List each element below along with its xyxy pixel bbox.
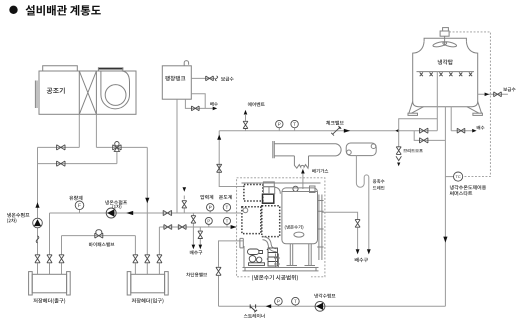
inlet header body [131,274,165,293]
valve on tank makeup [206,76,214,81]
arrow tank drain [213,107,218,111]
label 배수구 (machine drain) [355,258,368,263]
label 냉온수펌프 (2차) [7,213,29,218]
flow arrow down on tower return [443,237,447,243]
AHU fan scroll casing [101,71,130,109]
pump P1 (primary chilled water pump) [106,208,116,218]
machine pipe bend arc [275,187,281,194]
label 배기가스 [312,169,328,173]
wire tower spray riser [436,72,438,131]
pipe break S on makeup [215,76,217,81]
machine pump column [268,248,278,266]
wire AHU supply line to left riser [38,146,80,148]
wire tower makeup line [478,93,508,95]
machine pumps on base [249,255,256,262]
air vent: valve, stem, arrow [245,115,247,131]
cooling tower fan motor [440,31,449,36]
tower legs right [467,102,482,114]
shut-off valve 차단용밸브 [216,267,221,275]
wire AHU right coil pipe down [95,114,97,147]
cooling tower motor cap [443,28,449,31]
AHU fan discharge duct [98,68,123,70]
fan blades [433,41,448,48]
label 유량계 [69,196,82,201]
label 스트레이너 [244,314,265,318]
gauges row2: P T [208,224,210,227]
gauges row1: P T with labels [209,211,211,213]
flow arrow up on left riser [35,202,39,208]
spray header [417,71,475,73]
spray nozzles [420,72,472,76]
exhaust duct branch with broken end [294,156,308,168]
wire 3-way valve bottom port to bypass [116,151,118,163]
machine top small boxes E [263,182,274,187]
chiller scope dashed box [237,178,325,277]
thermostat TC circle [445,176,453,178]
label 보급수 (tank) [221,77,234,81]
AHU label 공조기 [47,87,65,93]
title bullet [9,6,17,14]
machine evaporator section (dotted) C [262,206,280,237]
fan shaft [444,36,446,46]
AHU coil section verticals [79,71,96,114]
label 브리드오프 [403,149,422,153]
wire corner to outlet header pipe2 [49,213,51,274]
valve on AHU supply line [57,145,65,150]
machine left boundary [243,246,245,268]
wire lower link to tower return pipe [414,131,445,141]
wire tank makeup line [191,77,215,79]
drain legs with valves below lower pipe [192,227,194,245]
wire tank overflow [191,94,205,109]
AHU coil X [79,71,96,114]
label 배수 (tank) [210,102,218,106]
thermometer T on condenser line [294,128,296,131]
machine bottom-right pipe [274,254,280,268]
tower legs left [409,102,424,114]
label (냉온수기) [285,225,304,230]
valve on AHU bypass line [57,161,65,166]
AHU fan wheel circle [105,85,126,106]
wire tower drain pipe [451,107,472,131]
label 배수구 (drain legs) [190,250,202,254]
machine base rails [243,268,319,271]
valve on tower makeup [494,92,502,97]
exhaust duct flange [273,141,275,158]
valve on condenser outlet riser [217,164,222,172]
machine main vessel [282,188,318,244]
label 냉온수펌프 (1차) [105,200,127,204]
tower inlet valve on main line [420,128,428,133]
expansion tank vent hook [184,61,188,66]
wire lower chilled pipe y=227 [159,226,236,228]
makeup feed arrow + valve into chilled line [183,187,187,192]
wire condenser water line to tower [219,130,437,132]
AHU top duct mark [43,66,78,71]
wire corner to inlet header pipe3 [158,227,160,274]
wire AHU left coil pipe down [78,114,80,147]
label 응축수 드레인 [373,179,385,183]
machine generator section (dotted) A [244,185,263,202]
vessel top sight glass [293,186,298,191]
condensate S-trap [356,156,368,250]
wire bypass loop over tower inlet valve [399,119,438,131]
label 바이패스밸브 [89,242,114,246]
crossover valve between pipes [192,213,194,227]
machine drain line with valve [322,212,358,249]
machine absorber section (dotted) B [242,207,261,234]
small arrow mark at bleed junction [395,129,398,132]
wire bottom condenser main y=306.3 [219,305,446,307]
dashed control line from fan motor [449,32,490,177]
flow arrow into machine on lower pipe [231,225,237,229]
flow meter F [79,210,81,213]
label 차단용밸브 [186,273,207,277]
wire condenser outlet riser x=219.2 from machine [219,131,243,187]
label 팽창탱크 [165,76,185,81]
machine inlet flange bottom left [240,238,243,248]
wire left riser x=37.5 [37,147,39,274]
machine small box D [263,194,274,203]
muffler capsule [346,143,376,156]
label 보급수 (tower) [503,87,515,91]
arrow tower drain [472,129,476,133]
flow arrow down on right riser [145,198,149,204]
label 에어벤트 [248,102,265,106]
label 냉각수펌프 [314,294,335,298]
label 저장헤더(입구) [132,298,164,303]
machine right side pipes [317,195,323,261]
valve on lower link [420,138,428,143]
strainer [250,304,257,312]
flow arrow right after check valve [344,129,350,133]
wire condenser inlet: machine port to bottom main [219,241,244,306]
exhaust duct body [274,144,341,156]
valve on left riser to header [35,255,40,263]
wire upper chilled pipe y=213 [50,212,242,214]
inlet header flanges [127,272,131,295]
outlet header flanges [29,272,33,295]
flex connector below pump P2 [36,236,39,243]
wire expansion tank outlet down [176,99,178,213]
label (냉온수기 시공범위) [250,273,311,281]
valve on tower drain [457,128,465,133]
label 저장헤더(출구) [33,298,65,303]
vessel manhole ellipse [294,232,304,237]
valves on lower chilled pipe [164,225,172,230]
tower body profile [413,41,478,106]
machine top line [242,182,321,184]
bypass line with motorized valve [62,235,136,237]
machine burner assembly [248,249,260,255]
gauges P T on bottom main [277,305,279,306]
label 냉각탑 [438,59,453,64]
valve on right riser to header [145,255,150,263]
pump P2 (secondary chilled water pump) [33,218,43,228]
wire tower return pipe down to bottom main [444,107,446,307]
tower top deck [424,38,466,41]
check valve [331,126,341,136]
label 체크밸브 [326,121,344,125]
wire tank drain with valve [185,99,213,108]
machine elbow pipe [263,237,277,252]
3-way motorized valve [113,145,121,150]
pressure gauge P on condenser line [278,128,280,131]
wire right riser x=147.3 down to inlet header [146,147,148,274]
cooling water pump [315,301,325,311]
wire AHU return to 3-way valve and right riser [96,146,147,148]
title text 설비배관 계통도 [26,5,101,16]
label 냉각수온도제어용 써머스타트 [450,185,486,190]
flue gas arrow up into duct [302,173,304,189]
flow arrow left after pump P1 [126,211,133,215]
flow arrow up on condenser outlet [217,135,221,140]
machine legs [287,244,316,266]
bleed-off branch: valve, funnel, arrow [398,131,400,147]
wire AHU bypass line [38,163,117,165]
air handler AHU body [39,71,136,114]
label 배수 (tower) [477,126,485,130]
valve on upper chilled pipe [163,210,171,215]
outlet header body [32,274,66,293]
flow arrow left on bottom main [266,304,272,308]
expansion tank body [162,66,191,99]
AHU left louver [35,81,37,109]
